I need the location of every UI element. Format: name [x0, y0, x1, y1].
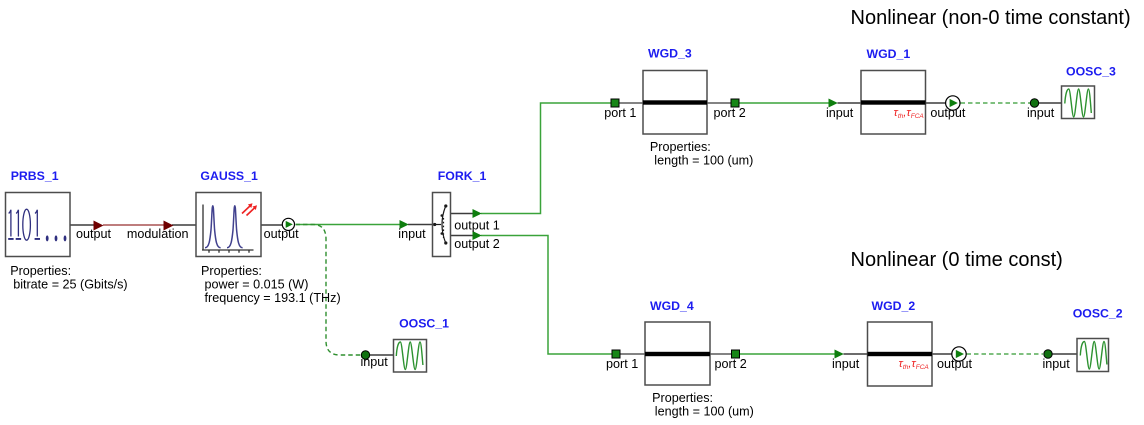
svg-text:output: output [264, 227, 300, 241]
svg-text:input: input [832, 357, 860, 371]
svg-text:Properties:: Properties: [201, 264, 262, 278]
svg-text:output: output [937, 357, 973, 371]
svg-text:OOSC_1: OOSC_1 [399, 317, 449, 331]
svg-text:modulation: modulation [127, 227, 189, 241]
svg-text:WGD_3: WGD_3 [648, 47, 692, 61]
svg-text:output: output [930, 106, 966, 120]
svg-text:port 1: port 1 [606, 357, 638, 371]
svg-text:input: input [826, 106, 854, 120]
svg-text:Properties:: Properties: [650, 140, 711, 154]
svg-text:WGD_4: WGD_4 [650, 299, 694, 313]
svg-text:port 1: port 1 [604, 106, 636, 120]
svg-text:length = 100 (um): length = 100 (um) [655, 405, 754, 419]
svg-text:FORK_1: FORK_1 [438, 169, 487, 183]
svg-text:WGD_1: WGD_1 [867, 47, 911, 61]
svg-text:output: output [76, 227, 112, 241]
svg-text:OOSC_2: OOSC_2 [1073, 307, 1123, 321]
svg-text:output 1: output 1 [454, 218, 500, 232]
svg-text:input: input [1027, 106, 1055, 120]
svg-text:length = 100 (um): length = 100 (um) [654, 153, 753, 167]
svg-text:Nonlinear (0 time const): Nonlinear (0 time const) [851, 249, 1063, 271]
svg-text:PRBS_1: PRBS_1 [11, 169, 59, 183]
svg-text:OOSC_3: OOSC_3 [1066, 65, 1116, 79]
svg-text:bitrate = 25 (Gbits/s): bitrate = 25 (Gbits/s) [13, 278, 127, 292]
svg-text:Nonlinear (non-0 time constant: Nonlinear (non-0 time constant) [851, 7, 1131, 29]
svg-text:input: input [361, 355, 389, 369]
svg-text:Properties:: Properties: [10, 264, 71, 278]
svg-text:port 2: port 2 [714, 106, 746, 120]
svg-text:input: input [1043, 357, 1071, 371]
svg-text:output 2: output 2 [454, 237, 500, 251]
svg-text:Properties:: Properties: [652, 391, 713, 405]
svg-text:GAUSS_1: GAUSS_1 [200, 169, 258, 183]
svg-text:input: input [398, 227, 426, 241]
svg-text:WGD_2: WGD_2 [872, 299, 916, 313]
svg-text:power = 0.015 (W): power = 0.015 (W) [205, 278, 309, 292]
svg-text:port 2: port 2 [715, 357, 747, 371]
svg-text:frequency = 193.1 (THz): frequency = 193.1 (THz) [205, 291, 341, 305]
